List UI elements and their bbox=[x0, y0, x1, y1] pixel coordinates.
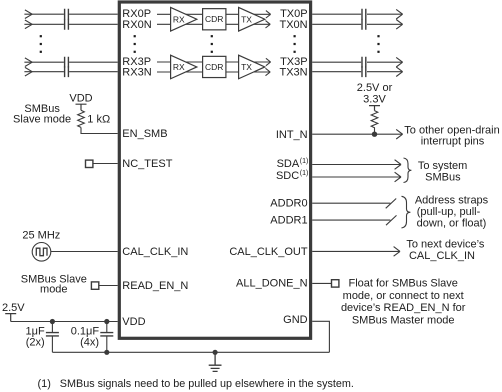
svg-text:(1): (1) bbox=[38, 378, 51, 390]
svg-text:INT_N: INT_N bbox=[276, 129, 308, 141]
svg-text:Float for SMBus Slave: Float for SMBus Slave bbox=[348, 278, 457, 290]
svg-text:SMBus: SMBus bbox=[425, 172, 461, 184]
block CDR (channel 0) bbox=[203, 9, 226, 30]
strap slash (ADDR0) bbox=[386, 199, 397, 209]
wire: RX0P external input bbox=[24, 10, 117, 19]
IC body (retimer device) bbox=[119, 2, 310, 338]
wire: SDA to system SMBus bbox=[312, 160, 401, 170]
wire: NC_TEST no-connect bbox=[93, 163, 118, 165]
svg-text:RX0N: RX0N bbox=[122, 19, 151, 31]
wire: RX0N external input bbox=[24, 20, 117, 29]
brace (SDA/SDC group) bbox=[404, 158, 412, 183]
svg-text:CDR: CDR bbox=[205, 62, 223, 72]
svg-text:0.1μF: 0.1μF bbox=[71, 325, 100, 337]
svg-text:Address straps: Address straps bbox=[415, 194, 489, 206]
svg-text:READ_EN_N: READ_EN_N bbox=[122, 280, 188, 292]
wire: TX3P external output bbox=[312, 57, 402, 67]
svg-text:CAL_CLK_OUT: CAL_CLK_OUT bbox=[229, 246, 308, 258]
ellipsis dots (right external) bbox=[377, 35, 379, 53]
wire: READ_EN_N bbox=[99, 285, 118, 287]
amplifier TX (channel 0) bbox=[239, 7, 265, 31]
wire: TX0N external output bbox=[312, 20, 402, 30]
strap slash (ADDR1) bbox=[386, 215, 397, 225]
svg-text:(pull-up, pull-: (pull-up, pull- bbox=[417, 206, 481, 218]
svg-text:RX3N: RX3N bbox=[122, 67, 151, 79]
capacitor: AC coupling cap on RX0P bbox=[65, 9, 69, 20]
resistor 1 kOhm pull-up bbox=[78, 110, 85, 127]
svg-text:TX: TX bbox=[241, 14, 252, 24]
svg-text:down, or float): down, or float) bbox=[417, 218, 487, 230]
svg-text:CAL_CLK_IN: CAL_CLK_IN bbox=[122, 246, 188, 258]
capacitor: AC coupling cap on TX3P bbox=[362, 57, 366, 68]
svg-text:ADDR0: ADDR0 bbox=[270, 198, 307, 210]
svg-text:ADDR1: ADDR1 bbox=[270, 215, 307, 227]
junction node (cap 2 tap) bbox=[104, 319, 109, 324]
svg-text:To system: To system bbox=[418, 160, 468, 172]
junction node (cap 2 bottom) bbox=[104, 350, 109, 355]
svg-text:SDA: SDA bbox=[277, 158, 300, 170]
svg-text:NC_TEST: NC_TEST bbox=[122, 158, 172, 170]
junction node (INT_N / resistor) bbox=[372, 132, 377, 137]
wire: internal channel 0 differential pair bbox=[157, 11, 271, 28]
wire: INT_N to other open-drain pins bbox=[312, 129, 402, 139]
svg-text:GND: GND bbox=[283, 314, 308, 326]
capacitor: AC coupling cap on TX0N bbox=[362, 19, 366, 30]
capacitor: AC coupling cap on TX3N bbox=[362, 66, 366, 77]
clock source symbol bbox=[32, 243, 51, 262]
ground symbol bbox=[209, 352, 222, 371]
svg-text:CAL_CLK_IN: CAL_CLK_IN bbox=[409, 250, 475, 262]
svg-text:TX: TX bbox=[241, 62, 252, 72]
svg-text:RX: RX bbox=[173, 14, 185, 24]
svg-text:interrupt pins: interrupt pins bbox=[421, 136, 485, 148]
svg-text:SDC: SDC bbox=[276, 170, 299, 182]
wire: clock to CAL_CLK_IN bbox=[51, 251, 118, 253]
wire: SDC to system SMBus bbox=[312, 172, 401, 182]
wire: internal channel 3 differential pair bbox=[157, 58, 271, 75]
svg-text:(4x): (4x) bbox=[80, 337, 99, 349]
svg-text:SMBus signals need to be pulle: SMBus signals need to be pulled up elsew… bbox=[60, 378, 354, 390]
svg-text:(2x): (2x) bbox=[26, 337, 45, 349]
brace (ADDR group) bbox=[402, 196, 411, 228]
junction node (cap 1 tap) bbox=[50, 319, 55, 324]
svg-text:1μF: 1μF bbox=[26, 325, 45, 337]
capacitor: AC coupling cap on RX0N bbox=[65, 19, 69, 30]
svg-text:VDD: VDD bbox=[122, 316, 145, 328]
wire: CAL_CLK_OUT to next device bbox=[312, 247, 400, 257]
svg-text:SMBus Master mode: SMBus Master mode bbox=[352, 314, 455, 326]
wire: GND pin loop bbox=[312, 321, 329, 352]
svg-text:25 MHz: 25 MHz bbox=[22, 230, 60, 242]
terminal square (ALL_DONE_N) bbox=[332, 280, 339, 287]
svg-text:(1): (1) bbox=[300, 158, 309, 165]
svg-text:1 kΩ: 1 kΩ bbox=[87, 113, 110, 125]
wire: TX0P external output bbox=[312, 9, 402, 19]
ellipsis dots (RX pins) bbox=[134, 35, 136, 53]
svg-text:device’s READ_EN_N for: device’s READ_EN_N for bbox=[341, 302, 466, 314]
amplifier RX (channel 3) bbox=[171, 55, 197, 79]
junction node (ground tap) bbox=[213, 350, 218, 355]
capacitor: AC coupling cap on RX3P bbox=[65, 57, 69, 68]
svg-text:To next device’s: To next device’s bbox=[406, 238, 485, 250]
wire: TX3N external output bbox=[312, 67, 402, 77]
svg-text:mode, or connect to next: mode, or connect to next bbox=[343, 290, 464, 302]
svg-text:3.3V: 3.3V bbox=[363, 94, 386, 106]
svg-text:2.5V: 2.5V bbox=[2, 302, 25, 314]
amplifier RX (channel 0) bbox=[171, 7, 197, 31]
amplifier TX (channel 3) bbox=[239, 55, 265, 79]
wire: resistor to EN_SMB pin bbox=[81, 127, 118, 133]
capacitor 1uF (2x) bbox=[51, 322, 53, 353]
capacitor 0.1uF (4x) bbox=[106, 322, 108, 353]
block CDR (channel 3) bbox=[203, 56, 226, 77]
svg-text:EN_SMB: EN_SMB bbox=[122, 128, 167, 140]
capacitor: AC coupling cap on RX3N bbox=[65, 66, 69, 77]
svg-text:(1): (1) bbox=[300, 170, 309, 177]
ellipsis dots (left external) bbox=[40, 35, 42, 53]
svg-text:CDR: CDR bbox=[205, 14, 223, 24]
wire: ADDR1 strap bbox=[312, 219, 390, 221]
terminal square (READ_EN_N) bbox=[91, 282, 98, 289]
ellipsis dots (TX pins) bbox=[294, 35, 296, 53]
wire: RX3P external input bbox=[24, 58, 117, 67]
wire: RX3N external input bbox=[24, 67, 117, 76]
svg-text:Slave mode: Slave mode bbox=[13, 114, 71, 126]
resistor INT_N pull-up bbox=[371, 111, 378, 135]
ellipsis dots (CDR column) bbox=[211, 35, 213, 53]
svg-text:ALL_DONE_N: ALL_DONE_N bbox=[236, 278, 308, 290]
svg-text:TX3N: TX3N bbox=[279, 67, 307, 79]
capacitor: AC coupling cap on TX0P bbox=[362, 9, 366, 20]
wire: 2.5V rail to VDD pin bbox=[11, 321, 118, 323]
svg-text:TX0N: TX0N bbox=[279, 19, 307, 31]
svg-text:RX: RX bbox=[173, 62, 185, 72]
wire: ground return rail bbox=[52, 351, 329, 353]
power bar (INT_N pull-up supply) bbox=[369, 106, 380, 111]
svg-text:VDD: VDD bbox=[69, 92, 92, 104]
wire: ADDR0 strap bbox=[312, 202, 390, 204]
svg-text:mode: mode bbox=[40, 284, 68, 296]
wire: ALL_DONE_N bbox=[312, 282, 331, 284]
svg-text:2.5V or: 2.5V or bbox=[357, 82, 393, 94]
terminal square (NC_TEST) bbox=[86, 160, 93, 167]
